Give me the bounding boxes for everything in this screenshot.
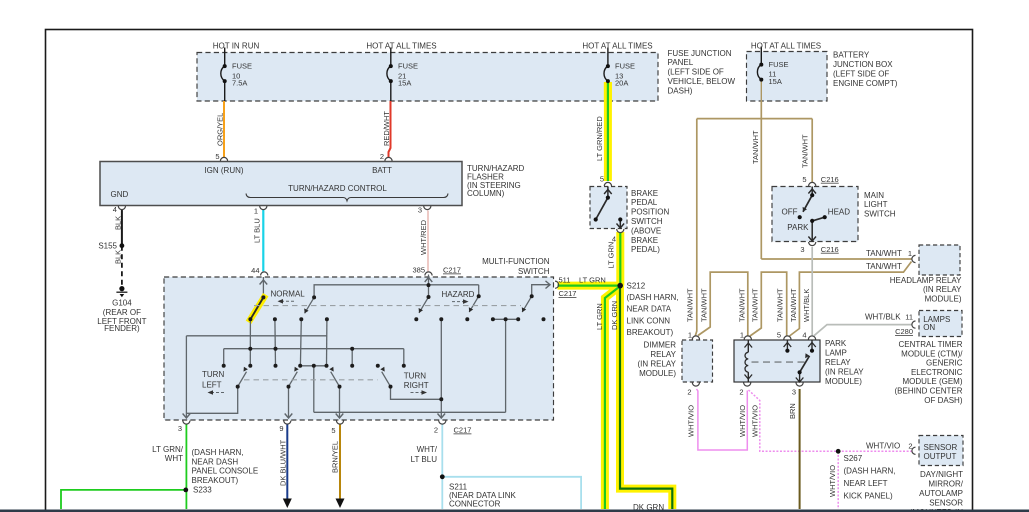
wire WHT/LT BLU MFS pin 2 to S211 and bottom: [441, 425, 443, 510]
svg-text:MIRROR/: MIRROR/: [928, 479, 963, 488]
svg-text:FUSE: FUSE: [232, 62, 252, 71]
svg-text:FENDER): FENDER): [104, 324, 140, 333]
svg-text:2: 2: [908, 441, 912, 450]
wire BLK flasher pin 4 to S155: [121, 210, 123, 246]
svg-text:BRN/YEL: BRN/YEL: [331, 441, 340, 473]
svg-text:C217: C217: [559, 289, 577, 298]
svg-text:BREAKOUT): BREAKOUT): [627, 328, 674, 337]
relay coil bumps: [745, 352, 748, 372]
svg-text:(LEFT SIDE OF: (LEFT SIDE OF: [833, 69, 889, 78]
svg-text:DK GRN: DK GRN: [610, 301, 619, 330]
wire TAN/WHT branch horizontal at y118: [697, 118, 812, 120]
svg-text:WHT: WHT: [165, 454, 183, 463]
wire WHT/VIO S267 down to bottom dotted: [837, 451, 839, 509]
svg-text:TAN/WHT: TAN/WHT: [866, 249, 902, 258]
turn/hazard flasher box: [100, 162, 462, 206]
svg-text:HOT AT ALL TIMES: HOT AT ALL TIMES: [366, 41, 436, 50]
svg-text:HOT AT ALL TIMES: HOT AT ALL TIMES: [751, 41, 821, 50]
wire MFS bladeB drop to pin5: [339, 387, 341, 418]
yellow highlight halo for DK GRN wire: [620, 286, 672, 509]
svg-text:3: 3: [178, 424, 182, 433]
relay coil line pin1 to pin2: [747, 340, 749, 382]
node park relay contacts: [785, 349, 789, 353]
svg-text:C216: C216: [821, 175, 839, 184]
pin arc flasher 1: [260, 206, 267, 210]
svg-text:TAN/WHT: TAN/WHT: [738, 288, 747, 322]
MFS entry/exit chevron arrows: [183, 278, 550, 419]
pin arc MLS 5: [809, 182, 816, 186]
svg-text:385: 385: [412, 266, 425, 275]
wire MFS hazard blade1: [419, 297, 429, 313]
svg-text:WHT/BLK: WHT/BLK: [802, 289, 811, 322]
svg-text:MODULE): MODULE): [925, 294, 962, 303]
wire LT BLU flasher pin 1 to MFS pin 44: [262, 210, 264, 272]
svg-text:ORG/YEL: ORG/YEL: [216, 113, 225, 146]
wire MFS pin2 riser: [440, 319, 442, 418]
svg-text:C216: C216: [821, 245, 839, 254]
svg-text:WHT/VIO: WHT/VIO: [866, 441, 900, 450]
svg-text:WHT/: WHT/: [417, 445, 438, 454]
svg-text:GND: GND: [111, 190, 129, 199]
svg-text:(IN RELAY: (IN RELAY: [637, 359, 676, 368]
pin arc park 4: [808, 336, 815, 340]
svg-text:ON: ON: [923, 323, 935, 332]
pin arc sensor output 2: [912, 447, 916, 454]
wire WHT/BLK main light switch pin 3 to park relay pin 4: [811, 247, 813, 336]
svg-text:(DASH HARN,: (DASH HARN,: [192, 448, 244, 457]
svg-text:CENTRAL TIMER: CENTRAL TIMER: [898, 340, 962, 349]
svg-text:RED/WHT: RED/WHT: [382, 111, 391, 146]
splice node S211: [440, 474, 445, 479]
wire DK GRN S212 to bottom right bend: [620, 286, 672, 509]
svg-text:2: 2: [687, 387, 691, 396]
svg-text:S211: S211: [449, 482, 468, 491]
svg-text:MODULE): MODULE): [825, 377, 862, 386]
svg-text:FUSE: FUSE: [615, 62, 635, 71]
wire WHT/VIO S267 to sensor output pin 2 dotted: [838, 450, 912, 452]
wire RED/WHT fuse21 to flasher pin 2: [389, 101, 391, 158]
wire BPP blade: [596, 198, 608, 220]
pin arc park 2: [744, 383, 751, 387]
svg-text:WHT/VIO: WHT/VIO: [738, 405, 747, 437]
bottom window bar: [0, 510, 1029, 512]
svg-text:(DASH HARN,: (DASH HARN,: [844, 467, 896, 476]
svg-text:DK BLU/WHT: DK BLU/WHT: [279, 439, 288, 486]
pin arc MFS 511: [555, 281, 559, 288]
svg-text:FUSE: FUSE: [769, 60, 789, 69]
PIN ARCS: [118, 157, 915, 454]
fuse F13 20A: [604, 82, 612, 101]
relay pin 3 leg: [799, 372, 801, 382]
svg-text:DAY/NIGHT: DAY/NIGHT: [920, 470, 963, 479]
svg-text:BATT: BATT: [372, 166, 392, 175]
pin arc flasher 2: [385, 157, 392, 161]
svg-text:TURN/HAZARD CONTROL: TURN/HAZARD CONTROL: [288, 184, 387, 193]
svg-text:MULTI-FUNCTION: MULTI-FUNCTION: [482, 257, 550, 266]
svg-text:15A: 15A: [398, 79, 411, 88]
wire MFS blade3: [522, 296, 532, 312]
wire TAN/WHT bridge park pin1 to park pin5: [750, 272, 787, 336]
splice node S267: [836, 449, 841, 454]
wire MFS rail2 drop 352: [351, 349, 353, 366]
svg-text:(LEFT SIDE OF: (LEFT SIDE OF: [668, 68, 724, 77]
svg-text:TAN/WHT: TAN/WHT: [801, 134, 810, 168]
pin arc MFS 9: [284, 421, 291, 425]
svg-text:LT GRN: LT GRN: [607, 242, 616, 269]
svg-text:4: 4: [802, 331, 806, 340]
pin arc MFS 385: [425, 272, 432, 276]
svg-text:1: 1: [908, 249, 912, 258]
svg-text:5: 5: [600, 175, 604, 184]
svg-text:DASH): DASH): [668, 86, 693, 95]
svg-text:SWITCH: SWITCH: [864, 210, 896, 219]
svg-text:OF DASH): OF DASH): [924, 396, 963, 405]
svg-text:RIGHT: RIGHT: [404, 381, 429, 390]
lamps on box: [919, 311, 962, 337]
svg-text:GENERIC: GENERIC: [926, 359, 963, 368]
svg-text:4: 4: [113, 205, 117, 214]
wire BRN/YEL MFS pin 5 down: [339, 425, 341, 502]
svg-text:(IN RELAY: (IN RELAY: [923, 285, 962, 294]
svg-text:OFF: OFF: [782, 207, 798, 216]
wire WHT/LT BLU S211 branch right: [442, 477, 581, 509]
dashed arrow TURN LEFT: [212, 392, 224, 394]
wire MLS park-head link: [812, 217, 825, 221]
svg-text:HEADLAMP RELAY: HEADLAMP RELAY: [890, 276, 962, 285]
wire MFS blade3 to pin 511: [532, 285, 550, 297]
wire MFS blade2: [305, 297, 315, 313]
pin arc flasher 5: [220, 157, 227, 161]
svg-text:COLUMN): COLUMN): [467, 189, 505, 198]
svg-text:TURN: TURN: [202, 370, 224, 379]
wire MFS rail2: [224, 348, 404, 350]
svg-text:TAN/WHT: TAN/WHT: [776, 288, 785, 322]
yellow highlight halo for LT GRN/RED wire from fuse 13: [604, 82, 612, 181]
svg-text:LT BLU: LT BLU: [411, 455, 438, 464]
svg-text:MAIN: MAIN: [864, 191, 884, 200]
wire MFS upper bar drop: [505, 319, 507, 412]
wire MFS lower bar drop: [313, 366, 315, 413]
wire MFS vertical 250: [249, 319, 251, 366]
wire MFS vertical 275: [274, 319, 277, 366]
svg-text:TAN/WHT: TAN/WHT: [700, 288, 709, 322]
wire LT GRN vertical S212 to bottom: [605, 287, 619, 509]
svg-text:2: 2: [380, 152, 384, 161]
wire MFS rail2 end drop right: [403, 349, 405, 366]
wire BPP entry: [607, 187, 609, 198]
svg-text:(REAR OF: (REAR OF: [103, 308, 141, 317]
relay switch blade: [800, 356, 810, 373]
svg-text:PANEL: PANEL: [668, 58, 694, 67]
wire TAN/WHT right branch down to main light switch pin 5: [811, 119, 813, 183]
wire MFS normal blade: [250, 297, 263, 319]
svg-text:KICK PANEL): KICK PANEL): [844, 492, 894, 501]
svg-text:ENGINE COMPT): ENGINE COMPT): [833, 79, 898, 88]
wire WHT/VIO park pin2 to S267 dotted: [749, 390, 839, 451]
svg-text:TAN/WHT: TAN/WHT: [751, 288, 760, 322]
pin arc park 1: [744, 336, 751, 340]
brace TURN/HAZARD CONTROL: [246, 194, 448, 201]
node BPP contacts: [606, 196, 610, 200]
svg-text:LAMP: LAMP: [825, 349, 847, 358]
svg-text:SENSOR: SENSOR: [929, 498, 963, 507]
svg-text:NORMAL: NORMAL: [271, 290, 306, 299]
svg-text:BATTERY: BATTERY: [833, 51, 870, 60]
svg-text:RELAY: RELAY: [825, 358, 851, 367]
svg-text:DIMMER: DIMMER: [644, 340, 677, 349]
svg-text:3: 3: [792, 387, 796, 396]
wire MLS blade to OFF: [803, 195, 812, 212]
svg-text:S267: S267: [844, 454, 863, 463]
fuse F21 15A: [387, 48, 391, 102]
wire TAN/WHT bridge dimmer pin1 to park pin1: [698, 272, 748, 336]
svg-text:IGN (RUN): IGN (RUN): [204, 166, 243, 175]
svg-text:PARK: PARK: [825, 339, 847, 348]
svg-text:BRAKE: BRAKE: [631, 189, 658, 198]
wire MFS vertical 326: [326, 319, 328, 366]
main light switch box: [772, 187, 858, 242]
svg-text:20A: 20A: [615, 79, 628, 88]
splice node S233: [183, 488, 188, 493]
svg-text:WHT/RED: WHT/RED: [419, 219, 428, 255]
pin arc MLS 3: [809, 242, 816, 246]
pin arc park 5: [784, 336, 791, 340]
svg-text:MODULE (GEM): MODULE (GEM): [903, 377, 963, 386]
svg-text:S233: S233: [193, 486, 212, 495]
splice node S155: [120, 243, 125, 248]
svg-text:BRN: BRN: [788, 403, 797, 419]
svg-text:11: 11: [905, 313, 913, 322]
svg-text:PANEL CONSOLE: PANEL CONSOLE: [192, 467, 259, 476]
MFS junction dots: [222, 283, 546, 401]
node MLS contacts: [810, 193, 814, 197]
svg-text:9: 9: [279, 424, 283, 433]
wire MFS turn-left blade: [238, 372, 247, 387]
wire MFS pin44 entry: [262, 277, 264, 297]
wire MFS bladeB: [331, 372, 340, 387]
multi-function switch box: [164, 277, 554, 420]
headlamp relay box: [919, 245, 960, 275]
wire LT GRN/WHT S233 branch left: [61, 490, 186, 509]
pin arc dimmer 1: [692, 336, 699, 340]
fuse junction panel box: [197, 53, 658, 102]
svg-text:BRAKE: BRAKE: [631, 236, 658, 245]
wire ORG/YEL fuse10 to flasher pin 5: [223, 101, 225, 158]
svg-text:SENSOR: SENSOR: [924, 443, 958, 452]
wire LT GRN/WHT MFS pin 3 to S233 and bottom: [185, 425, 187, 510]
svg-text:PARK: PARK: [787, 223, 809, 232]
svg-text:LT GRN: LT GRN: [595, 303, 604, 330]
svg-text:(IN RELAY: (IN RELAY: [825, 368, 864, 377]
svg-text:ELECTRONIC: ELECTRONIC: [911, 368, 963, 377]
svg-text:NEAR DASH: NEAR DASH: [192, 457, 239, 466]
wire MFS turn-right L: [391, 387, 442, 400]
dashed arrow NORMAL: [282, 300, 294, 302]
svg-text:CONNECTOR: CONNECTOR: [449, 500, 501, 509]
svg-text:2: 2: [739, 387, 743, 396]
svg-text:LEFT: LEFT: [202, 381, 222, 390]
wire MFS turn-left L: [186, 387, 237, 414]
svg-text:S155: S155: [98, 241, 117, 250]
wire MFS pin3 riser: [185, 336, 187, 418]
wire DK BLU/WHT MFS pin 9 down: [286, 425, 288, 502]
wire TAN/WHT rail A to headlamp relay pin 1: [761, 258, 911, 260]
pin arc MFS 2: [439, 421, 446, 425]
svg-text:NEAR DATA: NEAR DATA: [627, 305, 672, 314]
svg-text:BLK: BLK: [114, 250, 123, 264]
dashed arrow HAZARD: [452, 301, 464, 303]
pin arc flasher 3: [424, 206, 431, 210]
svg-text:5: 5: [777, 331, 781, 340]
svg-text:HEAD: HEAD: [828, 207, 850, 216]
svg-text:NEAR LEFT: NEAR LEFT: [844, 479, 888, 488]
svg-text:44: 44: [251, 266, 259, 275]
svg-text:S212: S212: [627, 281, 646, 290]
svg-text:HAZARD: HAZARD: [442, 290, 475, 299]
svg-text:5: 5: [215, 152, 219, 161]
svg-text:TAN/WHT: TAN/WHT: [866, 262, 902, 271]
svg-text:1: 1: [254, 207, 258, 216]
svg-text:OUTPUT: OUTPUT: [924, 452, 957, 461]
svg-text:BLK: BLK: [114, 216, 123, 230]
svg-text:(ABOVE: (ABOVE: [631, 226, 661, 235]
svg-text:15A: 15A: [769, 77, 782, 86]
relay pin 4 leg: [811, 340, 813, 351]
yellow highlight halo for LT GRN vertical to bottom: [605, 287, 619, 509]
svg-text:TURN: TURN: [404, 371, 426, 380]
svg-text:BREAKOUT): BREAKOUT): [192, 476, 239, 485]
svg-text:FUSE JUNCTION: FUSE JUNCTION: [668, 49, 732, 58]
svg-text:HOT IN RUN: HOT IN RUN: [213, 41, 260, 50]
pin arc park 3: [796, 383, 803, 387]
arrowhead DK BLU/WHT: [283, 499, 292, 509]
splice node S212: [617, 283, 623, 289]
park lamp relay box: [734, 340, 820, 382]
svg-text:WHT/VIO: WHT/VIO: [828, 465, 837, 497]
yellow highlight halo for LT GRN brake switch to S212: [616, 232, 624, 286]
svg-text:LT GRN/RED: LT GRN/RED: [595, 116, 604, 161]
svg-text:POSITION: POSITION: [631, 208, 669, 217]
fuse F10 7.5A: [221, 48, 225, 102]
sensor output box: [919, 436, 963, 466]
fuse F11 15A: [757, 47, 761, 102]
svg-text:LT GRN: LT GRN: [579, 275, 606, 284]
relay pin 5 leg: [786, 340, 788, 351]
svg-text:TAN/WHT: TAN/WHT: [789, 288, 798, 322]
svg-text:FUSE: FUSE: [398, 62, 418, 71]
svg-text:TAN/WHT: TAN/WHT: [751, 130, 760, 164]
pin arc MFS 44: [261, 272, 268, 276]
yellow highlight halo for LT GRN horizontal from MFS 511: [558, 282, 621, 290]
arrowhead BRN/YEL: [336, 499, 345, 509]
wire BPP output leg: [619, 220, 621, 229]
wire LT GRN/RED fuse13 to brake pedal switch pin 5: [607, 82, 609, 181]
svg-text:MODULE (CTM)/: MODULE (CTM)/: [901, 349, 963, 358]
wire LT GRN brake pedal switch pin 4 to splice S212: [619, 232, 621, 286]
wire TAN/WHT fuse 11 down to rail A corner: [760, 101, 762, 259]
MFS blade arrowheads: [304, 308, 308, 313]
pin arc BPP 5: [604, 182, 611, 186]
pin arc flasher 4: [118, 206, 125, 210]
wire WHT/RED flasher pin 3 to MFS pin 385: [427, 211, 429, 272]
wire TAN/WHT left branch down to dimmer relay pin 1: [695, 119, 697, 337]
svg-text:RELAY: RELAY: [650, 350, 676, 359]
dimmer relay box: [682, 340, 713, 382]
svg-text:LT GRN/: LT GRN/: [152, 445, 184, 454]
wire WHT/VIO dimmer pin2 to park pin2 U loop: [697, 389, 748, 450]
wire MLS park to pin3: [811, 221, 813, 242]
svg-text:LINK CONN: LINK CONN: [627, 316, 671, 325]
wire WHT/BLK lamps on to park relay pin 4: [814, 325, 913, 336]
svg-text:(NEAR DATA LINK: (NEAR DATA LINK: [449, 491, 516, 500]
wire LT GRN from MFS pin 511 to S212: [558, 285, 621, 287]
svg-text:VEHICLE, BELOW: VEHICLE, BELOW: [668, 77, 736, 86]
pin arc headlamp relay 1: [912, 255, 916, 262]
ground G104 symbol: [119, 286, 124, 291]
wire BLK dashed S155 to G104 ground: [121, 246, 123, 286]
pin arc dimmer 2: [692, 383, 699, 387]
svg-text:1: 1: [740, 331, 744, 340]
svg-text:C217: C217: [454, 426, 472, 435]
svg-text:C280: C280: [895, 327, 913, 336]
svg-text:MODULE): MODULE): [639, 369, 676, 378]
wire MFS lower bar trio: [300, 365, 326, 367]
svg-text:LIGHT: LIGHT: [864, 200, 888, 209]
svg-text:(DASH HARN,: (DASH HARN,: [627, 293, 679, 302]
svg-text:TAN/WHT: TAN/WHT: [685, 288, 694, 322]
svg-text:3: 3: [800, 245, 804, 254]
svg-text:JUNCTION BOX: JUNCTION BOX: [833, 60, 893, 69]
svg-text:G104: G104: [112, 298, 132, 307]
MFS INTERNALS: [186, 275, 549, 419]
svg-text:HOT AT ALL TIMES: HOT AT ALL TIMES: [582, 41, 652, 50]
battery junction box: [747, 52, 828, 102]
pin arc MFS 5: [336, 421, 343, 425]
svg-text:WHT/VIO: WHT/VIO: [750, 405, 759, 437]
svg-text:2: 2: [434, 426, 438, 435]
svg-text:511: 511: [559, 275, 571, 284]
svg-text:3: 3: [418, 206, 422, 215]
wire MFS turn-right blade: [382, 372, 391, 387]
svg-text:7.5A: 7.5A: [232, 79, 247, 88]
wire MFS vertical 301: [299, 319, 302, 366]
svg-text:C217: C217: [443, 266, 461, 275]
wire MFS blade2 riser and top rail to pin385 and hazard: [314, 285, 479, 298]
wire MLS entry: [811, 187, 813, 196]
svg-text:PEDAL: PEDAL: [631, 198, 658, 207]
relay dashed actuation line: [752, 361, 807, 363]
brake pedal position switch box: [590, 187, 627, 229]
dashed selector line upper: [254, 305, 521, 307]
pin arc lamps on 11: [912, 321, 916, 328]
wire MFS bladeA: [289, 372, 298, 387]
wire MFS bladeA drop to pin9: [288, 387, 290, 418]
wire MFS normal blade highlight: [249, 295, 266, 323]
wire MFS rail2 end drop left: [223, 349, 225, 366]
svg-text:SWITCH: SWITCH: [631, 217, 663, 226]
svg-text:1: 1: [688, 331, 692, 340]
svg-text:LT BLU: LT BLU: [253, 218, 262, 243]
svg-text:WHT/VIO: WHT/VIO: [686, 405, 695, 437]
wire MFS cross horizontal: [314, 411, 506, 413]
svg-text:SWITCH: SWITCH: [518, 267, 550, 276]
pin arc MFS 3: [183, 421, 190, 425]
wire BRN park relay pin 3 to bottom: [799, 389, 801, 509]
svg-text:AUTOLAMP: AUTOLAMP: [919, 489, 963, 498]
svg-text:PEDAL): PEDAL): [631, 245, 660, 254]
svg-text:5: 5: [802, 175, 806, 184]
wire MFS hazard blade2 drop: [478, 285, 480, 296]
